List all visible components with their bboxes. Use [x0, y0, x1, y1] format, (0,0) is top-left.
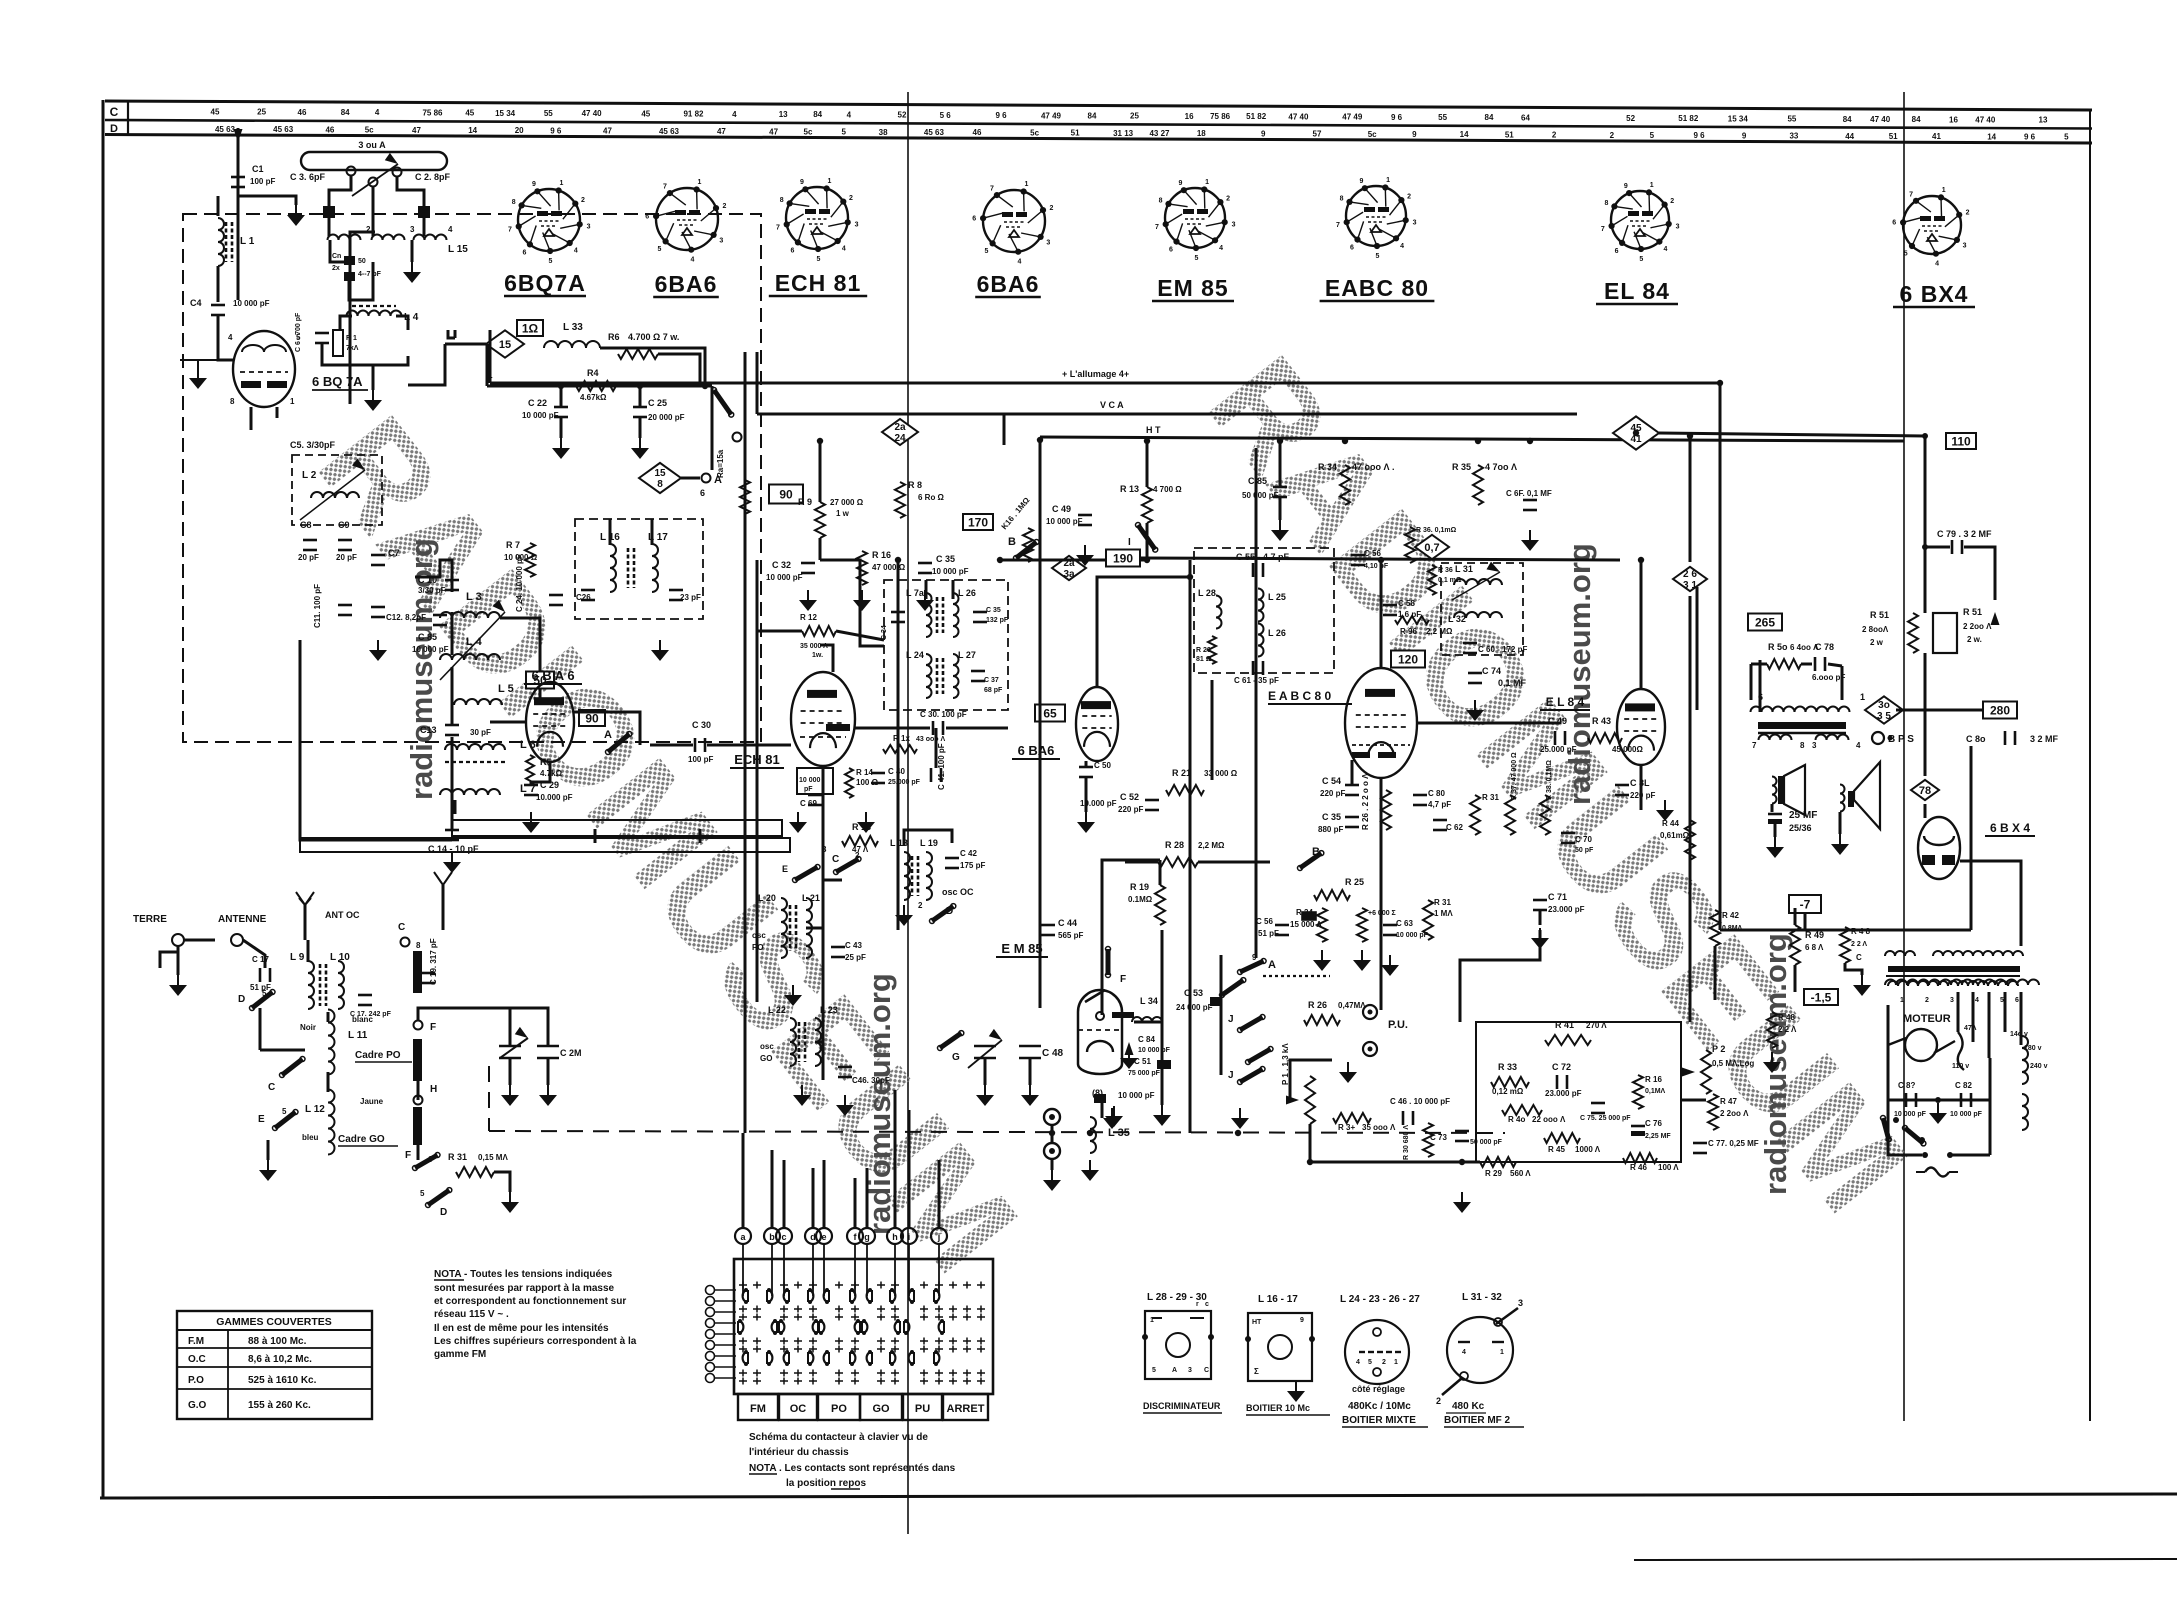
- svg-text:J: J: [1228, 1014, 1234, 1025]
- svg-text:5 6: 5 6: [940, 111, 952, 120]
- svg-text:4: 4: [1856, 741, 1861, 750]
- wire line to C30: [650, 744, 693, 747]
- svg-text:4: 4: [732, 110, 737, 119]
- svg-text:4: 4: [690, 257, 694, 264]
- svg-text:C11. 100 pF: C11. 100 pF: [313, 584, 322, 628]
- resistor R42 area: [1710, 910, 1720, 946]
- svg-text:6 BX4: 6 BX4: [1900, 281, 1969, 307]
- wire left col to triode: [218, 342, 233, 360]
- svg-text:8: 8: [230, 397, 235, 406]
- svg-text:L 26: L 26: [1268, 628, 1286, 638]
- trimmer arrow L3L4: [440, 612, 505, 680]
- svg-text:65: 65: [1043, 707, 1057, 721]
- wire R13 to bus: [1146, 441, 1149, 487]
- svg-text:20 pF: 20 pF: [298, 553, 319, 562]
- svg-text:1Ω: 1Ω: [522, 322, 539, 336]
- resistor R31c: [1423, 900, 1433, 940]
- capacitor C35: [918, 562, 932, 565]
- capacitor C53: [1210, 997, 1222, 1006]
- svg-text:C 85: C 85: [418, 632, 437, 642]
- capacitor C80b: [2004, 731, 2007, 745]
- svg-text:7: 7: [1752, 741, 1757, 750]
- resistor R44: [1685, 820, 1695, 860]
- svg-text:0,7: 0,7: [1424, 542, 1439, 554]
- svg-text:C 52: C 52: [1120, 792, 1139, 802]
- discriminateur can: [1145, 1311, 1211, 1379]
- svg-text:15 34: 15 34: [1728, 114, 1749, 123]
- resistor R38: [1540, 795, 1550, 835]
- capacitor C43: [831, 946, 845, 949]
- svg-text:3 ou A: 3 ou A: [358, 140, 386, 150]
- coil L10: [338, 961, 344, 1009]
- antenna mast 2: [442, 885, 445, 930]
- wire bus drop at 712: [711, 386, 714, 470]
- keyboard buttons FM OC PO GO PU ARRET: [738, 1394, 778, 1420]
- svg-text:F.M: F.M: [188, 1336, 204, 1347]
- svg-text:4--7 pF: 4--7 pF: [358, 271, 382, 278]
- svg-text:R 42: R 42: [1722, 911, 1739, 920]
- svg-text:R 3+: R 3+: [1338, 1123, 1355, 1132]
- tube EM85: [1078, 990, 1122, 1064]
- svg-text:10 000 pF: 10 000 pF: [233, 299, 270, 308]
- wire osc taps: [823, 879, 842, 882]
- svg-text:2: 2: [1382, 1359, 1386, 1366]
- resistor R12: [802, 626, 836, 636]
- svg-text:C 30. 100 pF: C 30. 100 pF: [920, 710, 967, 719]
- wire ech81 to bus: [820, 645, 833, 672]
- svg-text:2 w: 2 w: [1870, 638, 1884, 647]
- svg-text:4 7oo Λ: 4 7oo Λ: [1485, 462, 1517, 472]
- gnd PU: [1347, 1062, 1349, 1072]
- capacitor C72: [1556, 1075, 1559, 1089]
- svg-text:15: 15: [654, 468, 666, 479]
- diamond 15: [486, 330, 524, 357]
- svg-text:l'intérieur du chassis: l'intérieur du chassis: [749, 1447, 849, 1458]
- wire bottom rails: [417, 1144, 420, 1160]
- svg-text:47 ooo Λ .: 47 ooo Λ .: [1352, 462, 1395, 472]
- svg-text:8: 8: [1340, 196, 1344, 203]
- svg-text:radiomuseum.org: radiomuseum.org: [1562, 543, 1597, 805]
- resistor R48b: [1767, 1012, 1777, 1048]
- svg-text:10 000 pF: 10 000 pF: [1396, 932, 1429, 939]
- svg-text:2 2 Λ: 2 2 Λ: [1778, 1025, 1797, 1034]
- capacitor C49: [1078, 514, 1092, 517]
- capacitor C78: [1814, 657, 1817, 671]
- svg-text:C 46 . 10 000 pF: C 46 . 10 000 pF: [1390, 1097, 1450, 1106]
- gnd ECH81: [797, 812, 799, 822]
- wire right col 1697: [1696, 587, 1699, 710]
- svg-text:23.000 pF: 23.000 pF: [1545, 1089, 1582, 1098]
- resistor R36a: [1428, 565, 1436, 595]
- value box 120: [1391, 651, 1425, 668]
- coil L21: [806, 898, 812, 958]
- resistor R45b: [1357, 908, 1367, 942]
- ECH81 second anode bar: [826, 724, 850, 731]
- svg-text:L 2: L 2: [302, 470, 317, 481]
- wire 4541 to down: [1719, 383, 1722, 930]
- core L22: [798, 1022, 801, 1062]
- svg-text:9 6: 9 6: [550, 126, 562, 135]
- svg-text:38: 38: [879, 128, 888, 137]
- svg-text:5: 5: [1194, 255, 1198, 262]
- svg-text:6BA6: 6BA6: [655, 271, 718, 297]
- svg-text:P.U.: P.U.: [1388, 1019, 1408, 1031]
- svg-text:4 700 Ω: 4 700 Ω: [1153, 485, 1182, 494]
- svg-text:75 86: 75 86: [1210, 112, 1231, 121]
- svg-text:4: 4: [1017, 259, 1021, 266]
- svg-text:6BQ7A: 6BQ7A: [504, 270, 586, 296]
- svg-text:50 000 pF: 50 000 pF: [1242, 491, 1279, 500]
- svg-text:5: 5: [282, 1107, 287, 1116]
- resistor R25: [1314, 890, 1350, 900]
- svg-text:TERRE: TERRE: [133, 914, 167, 925]
- ruler top line: [105, 101, 2092, 110]
- resistor R17: [883, 745, 917, 753]
- lever C2 contact: [795, 867, 818, 880]
- svg-text:3: 3: [1188, 1367, 1192, 1374]
- diamond 2a3a: [1052, 556, 1086, 580]
- svg-text:25 MF: 25 MF: [1789, 810, 1817, 821]
- svg-text:G.O: G.O: [188, 1400, 207, 1411]
- svg-text:g: g: [864, 1232, 870, 1242]
- resistor R4: [576, 381, 616, 391]
- svg-text:45.000Ω: 45.000Ω: [1612, 745, 1643, 754]
- svg-text:2,2 MΩ: 2,2 MΩ: [1426, 627, 1453, 636]
- wire pu right: [1681, 1099, 1706, 1102]
- value box -7: [1789, 895, 1821, 913]
- wire 6BA6 cath: [531, 762, 550, 785]
- resistor R18: [842, 836, 878, 846]
- svg-text:C 78: C 78: [1815, 642, 1834, 652]
- svg-text:+ L'allumage 4+: + L'allumage 4+: [1062, 369, 1129, 379]
- wire 6BA6b anode: [1097, 577, 1190, 687]
- heater bumps extended row: [1885, 980, 2039, 986]
- wire sw spine: [1220, 955, 1223, 1075]
- ruler bottom line: [105, 135, 2092, 144]
- dashed box L31L32: [1441, 563, 1523, 655]
- svg-text:6: 6: [522, 250, 526, 257]
- svg-text:55: 55: [544, 109, 553, 118]
- tube base EL 84: [1611, 191, 1669, 249]
- svg-text:R 41: R 41: [1555, 1020, 1574, 1030]
- wire dipole centre drop: [372, 187, 375, 236]
- svg-text:16: 16: [1949, 115, 1958, 124]
- svg-text:C: C: [1856, 953, 1862, 962]
- svg-text:5: 5: [816, 256, 820, 263]
- wire keyboard riser a: [742, 1133, 745, 1228]
- svg-text:P.O: P.O: [188, 1375, 204, 1386]
- svg-text:DISCRIMINATEUR: DISCRIMINATEUR: [1143, 1401, 1221, 1411]
- gnd L20: [792, 985, 794, 995]
- svg-text:4: 4: [228, 333, 233, 342]
- ruler left cell divider: [127, 101, 129, 135]
- resistor R33: [1491, 1077, 1529, 1087]
- svg-text:6 BA6: 6 BA6: [1018, 743, 1055, 758]
- capacitor C54 220pF: [1345, 784, 1359, 787]
- svg-text:3: 3: [410, 225, 415, 234]
- svg-text:osc: osc: [760, 1042, 774, 1051]
- wire keyboard riser f: [854, 1178, 857, 1228]
- svg-text:47 40: 47 40: [1975, 116, 1996, 125]
- svg-text:J: J: [1228, 1070, 1234, 1081]
- svg-text:NOTA - Toutes les tensions: NOTA - Toutes les tensions indiquées: [434, 1269, 613, 1280]
- svg-text:R 34: R 34: [1318, 462, 1337, 472]
- capacitor C84: [1125, 1042, 1134, 1055]
- triode grid dashes: [240, 371, 288, 373]
- svg-text:C4: C4: [190, 298, 202, 308]
- svg-text:4: 4: [1462, 1349, 1466, 1356]
- svg-text:1 MΛ: 1 MΛ: [1434, 909, 1453, 918]
- dipole terminal 2: [393, 168, 402, 177]
- capacitor C71: [1533, 899, 1547, 902]
- wire C79: [1925, 436, 1950, 547]
- coil L32: [1454, 612, 1502, 618]
- wire 6BX4 top: [1960, 861, 2021, 946]
- svg-text:L 10: L 10: [330, 952, 350, 963]
- svg-text:75 86: 75 86: [422, 109, 443, 118]
- svg-text:2: 2: [1407, 193, 1411, 200]
- diamond 78: [1911, 780, 1939, 800]
- svg-text:9: 9: [1178, 180, 1182, 187]
- svg-text:2: 2: [1925, 997, 1929, 1004]
- antenna arrow mark: [234, 129, 243, 142]
- svg-text:R 4o: R 4o: [1508, 1115, 1525, 1124]
- svg-text:88 à 100 Mc.: 88 à 100 Mc.: [248, 1336, 307, 1347]
- capacitor C12: [371, 606, 385, 609]
- wire col 745: [744, 352, 747, 742]
- svg-text:R 19: R 19: [1130, 882, 1149, 892]
- ac source squiggle: [1925, 1168, 1949, 1177]
- svg-text:4: 4: [574, 248, 578, 255]
- keyboard terminal drops: [742, 1244, 744, 1296]
- wire into diamond15: [445, 343, 486, 346]
- svg-text:4,7 pF: 4,7 pF: [1428, 800, 1451, 809]
- svg-text:6: 6: [2015, 997, 2019, 1004]
- wire VCA bus: [757, 413, 1577, 416]
- resistor R43: [1588, 733, 1622, 743]
- svg-text:8: 8: [780, 197, 784, 204]
- wire rail stubs: [454, 800, 457, 814]
- svg-text:3/30 pF: 3/30 pF: [418, 586, 446, 595]
- svg-text:E L 8 4: E L 8 4: [1546, 695, 1585, 709]
- gnd EM85: [1111, 1108, 1113, 1118]
- dashed box small L2: [292, 455, 382, 525]
- core between L16 L17: [627, 548, 630, 588]
- svg-text:8: 8: [512, 199, 516, 206]
- svg-text:155 à 260 Kc.: 155 à 260 Kc.: [248, 1400, 311, 1411]
- capacitor C44: [1041, 924, 1055, 927]
- wire vertical 745 long: [744, 742, 747, 1133]
- junction dots mid: [895, 557, 901, 563]
- resistor R46: [1623, 1153, 1657, 1163]
- svg-text:2 8ooΛ: 2 8ooΛ: [1862, 625, 1889, 634]
- ground left col: [197, 368, 199, 378]
- svg-text:31 13: 31 13: [1113, 129, 1134, 138]
- capacitor C60: [1463, 642, 1477, 645]
- svg-text:c: c: [781, 1232, 786, 1242]
- svg-text:9 6: 9 6: [1391, 113, 1403, 122]
- capacitor C18: [358, 994, 372, 997]
- svg-text:6 B A 6: 6 B A 6: [531, 668, 574, 683]
- capacitor C8 C9 pair: [303, 539, 317, 542]
- svg-text:4.67kΩ: 4.67kΩ: [580, 393, 607, 402]
- svg-text:84: 84: [813, 110, 822, 119]
- capacitor C52: [1145, 799, 1159, 802]
- wire g line left: [490, 721, 526, 724]
- wire col 757: [756, 352, 759, 414]
- svg-text:réseau 115 V ~ .: réseau 115 V ~ .: [434, 1309, 509, 1320]
- svg-text:68 pF: 68 pF: [984, 687, 1003, 694]
- filtbox: [1302, 912, 1316, 920]
- svg-text:33 000 Ω: 33 000 Ω: [1204, 769, 1238, 778]
- svg-text:BOITIER MF 2: BOITIER MF 2: [1444, 1415, 1511, 1426]
- wire top bus y404: [487, 385, 712, 388]
- svg-text:C 56: C 56: [1256, 917, 1273, 926]
- boitier mixte can: [1345, 1320, 1409, 1384]
- svg-text:5: 5: [1639, 256, 1643, 263]
- svg-text:R 26 . 2 2 o o Λ: R 26 . 2 2 o o Λ: [1361, 773, 1370, 830]
- svg-text:L 15: L 15: [448, 244, 468, 255]
- capacitor C13: [445, 724, 459, 727]
- core L9 L10: [319, 964, 322, 1006]
- svg-text:C 49: C 49: [1052, 504, 1071, 514]
- keyboard top terminals: [735, 1228, 751, 1244]
- capacitor C5 varactor arrow: [300, 470, 365, 520]
- svg-text:C 75. 25 000 pF: C 75. 25 000 pF: [1580, 1115, 1631, 1122]
- capacitor C25: [633, 406, 647, 409]
- svg-text:8: 8: [657, 479, 663, 490]
- terminal antenne: [231, 934, 243, 946]
- svg-text:4: 4: [375, 108, 380, 117]
- svg-text:C 6F. 0,1 MF: C 6F. 0,1 MF: [1506, 489, 1552, 498]
- capacitor C77: [1693, 1142, 1707, 1145]
- svg-text:R 43: R 43: [1592, 716, 1611, 726]
- svg-text:HT: HT: [1252, 1319, 1262, 1326]
- triode top arcs: [242, 345, 264, 352]
- wire keyboard riser h: [894, 1090, 897, 1228]
- coil L22: [790, 1018, 796, 1066]
- svg-text:7: 7: [990, 186, 994, 193]
- wire from antenna cluster down-right: [448, 330, 455, 338]
- coil L35: [1090, 1117, 1096, 1153]
- svg-text:84: 84: [341, 108, 350, 117]
- svg-text:C7: C7: [388, 548, 400, 558]
- secondary coils OT: [1759, 735, 1792, 741]
- wire right rail: [1689, 596, 1692, 700]
- svg-text:BOITIER MIXTE: BOITIER MIXTE: [1342, 1415, 1416, 1426]
- svg-text:C 54: C 54: [1322, 776, 1341, 786]
- svg-text:2 2oo Λ: 2 2oo Λ: [1963, 622, 1992, 631]
- capacitor C85b: [433, 614, 447, 617]
- svg-text:9 6: 9 6: [1693, 131, 1705, 140]
- wire C1 to gnd arm: [238, 196, 296, 205]
- keyboard outer box: [734, 1259, 993, 1394]
- svg-text:100 pF: 100 pF: [688, 755, 713, 764]
- wire d26: [1689, 436, 1692, 562]
- tuning gang 1: [500, 1038, 528, 1058]
- wire 1040 drop: [1039, 441, 1042, 700]
- wire b2 bus: [1000, 559, 1147, 562]
- resistor R34: [1340, 465, 1350, 505]
- svg-text:5: 5: [1375, 253, 1379, 260]
- svg-text:6BA6: 6BA6: [977, 271, 1040, 297]
- svg-text:25.000 pF: 25.000 pF: [888, 779, 921, 786]
- svg-text:84: 84: [1912, 115, 1921, 124]
- svg-text:47: 47: [603, 127, 612, 136]
- resistor R7: [525, 543, 535, 577]
- svg-text:7: 7: [1155, 224, 1159, 231]
- svg-text:90: 90: [585, 712, 599, 726]
- svg-text:A: A: [1172, 1367, 1177, 1374]
- svg-text:480Kc / 10Mc: 480Kc / 10Mc: [1348, 1401, 1411, 1412]
- svg-text:47 40: 47 40: [1870, 115, 1891, 124]
- wire el84 plate up: [1640, 560, 1643, 689]
- svg-text:C 37: C 37: [984, 677, 999, 684]
- svg-text:R6: R6: [608, 332, 620, 342]
- coil L18: [904, 852, 910, 900]
- ground L7: [451, 852, 453, 862]
- capacitor C75b: [1591, 1102, 1605, 1105]
- svg-text:43 ooo Λ: 43 ooo Λ: [916, 736, 946, 743]
- resistor R50: [1767, 659, 1801, 669]
- svg-text:1: 1: [1205, 179, 1209, 186]
- svg-text:C 19. 317 pF: C 19. 317 pF: [429, 938, 438, 985]
- svg-text:55: 55: [1787, 115, 1796, 124]
- wire stack right: [500, 618, 540, 700]
- svg-text:1 w: 1 w: [836, 509, 850, 518]
- svg-text:C 63: C 63: [1396, 919, 1413, 928]
- resistor R16b: [1633, 1075, 1643, 1109]
- svg-text:8: 8: [1800, 741, 1805, 750]
- svg-text:2x: 2x: [332, 265, 340, 272]
- svg-text:L 27: L 27: [958, 650, 976, 660]
- transformer tap drops: [1957, 992, 1960, 1032]
- wire keyboard riser i: [908, 1110, 911, 1228]
- svg-text:25/36: 25/36: [1789, 823, 1812, 833]
- junction dots HT bus: [817, 438, 823, 444]
- capacitor C79: [1951, 540, 1954, 554]
- svg-text:0,8MΛ: 0,8MΛ: [1722, 925, 1743, 932]
- wire coil right gnd: [411, 240, 414, 262]
- gnd L35: [1089, 1160, 1091, 1170]
- svg-text:43 27: 43 27: [1149, 129, 1170, 138]
- svg-text:C: C: [1204, 1367, 1209, 1374]
- svg-text:D: D: [440, 1207, 447, 1218]
- svg-text:3o: 3o: [1878, 700, 1890, 711]
- svg-text:4: 4: [847, 110, 852, 119]
- svg-text:L 24 - 23 - 26 - 27: L 24 - 23 - 26 - 27: [1340, 1294, 1420, 1305]
- svg-text:R 31: R 31: [1482, 793, 1499, 802]
- svg-text:et correspondent au fonctio: et correspondent au fonctionnement sur: [434, 1296, 626, 1307]
- svg-text:0,5 MΛ.Log: 0,5 MΛ.Log: [1712, 1059, 1754, 1068]
- svg-text:i: i: [908, 1232, 911, 1242]
- capacitor C29: [524, 784, 538, 787]
- wire keyboard up: [938, 1160, 941, 1228]
- wire eabc top link: [1380, 560, 1383, 668]
- svg-text:9 6: 9 6: [995, 111, 1007, 120]
- svg-text:C13: C13: [420, 725, 437, 735]
- gnd C49: [1084, 545, 1086, 555]
- trimmer arrows L31: [1452, 572, 1500, 600]
- svg-text:4: 4: [1663, 246, 1667, 253]
- capacitor C74: [1468, 672, 1482, 675]
- tube base EABC 80: [1346, 186, 1406, 246]
- PU terminals: [1363, 1005, 1377, 1019]
- svg-text:L 5: L 5: [498, 683, 514, 695]
- svg-text:C26: C26: [576, 593, 591, 602]
- svg-text:100 Λ: 100 Λ: [1658, 1163, 1679, 1172]
- capacitor C7: [371, 554, 385, 557]
